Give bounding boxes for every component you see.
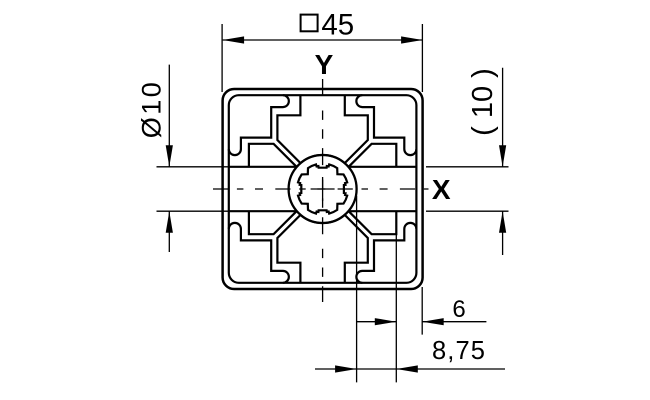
top-left corner cavity	[229, 95, 289, 155]
bottom-right corner cavity	[356, 223, 416, 283]
profile outer contour	[223, 89, 423, 289]
bottom-left corner cavity	[229, 223, 289, 283]
horizontal center line (X axis)	[213, 188, 429, 190]
svg-text:8,75: 8,75	[432, 337, 486, 365]
dim 8,75 extension line	[356, 196, 358, 382]
top-right corner cavity	[356, 95, 416, 155]
dim 8,75 dimension line	[315, 368, 505, 370]
svg-text:45: 45	[321, 8, 354, 41]
dim dia10 extension lines	[157, 167, 229, 211]
dim (10) extension lines	[426, 167, 509, 211]
svg-text:Ø10: Ø10	[136, 80, 166, 139]
bore crosshair	[311, 177, 335, 201]
central hub	[289, 155, 357, 223]
dim dia10 dimension line	[168, 65, 170, 252]
dim 6 dimension line	[357, 321, 487, 323]
svg-text:X: X	[432, 174, 451, 205]
svg-text:( 10 ): ( 10 )	[467, 68, 499, 136]
dim 45 square symbol	[301, 15, 318, 32]
dim 6 extension lines	[396, 234, 422, 382]
dim (10) dimension line	[502, 68, 504, 255]
vertical center line (Y axis)	[322, 79, 324, 302]
left T-slot cavity	[229, 144, 297, 234]
dim 45 dimension line	[223, 39, 423, 41]
top T-slot cavity	[277, 95, 367, 163]
svg-text:Y: Y	[315, 49, 334, 80]
dim 45 extension lines	[222, 24, 422, 92]
core bore with splines	[298, 164, 347, 213]
right T-slot cavity	[349, 144, 417, 234]
bottom T-slot cavity	[277, 215, 367, 283]
profile inner wall	[229, 95, 417, 283]
svg-text:6: 6	[452, 296, 465, 323]
